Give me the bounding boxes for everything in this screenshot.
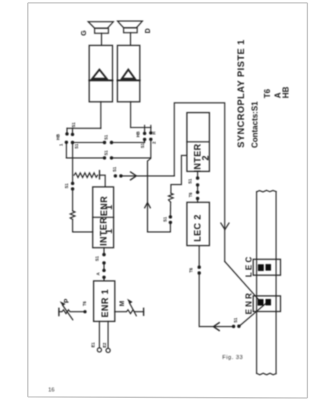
terminal E2 circle (106, 348, 110, 352)
wire amp D horizontal (131, 127, 151, 129)
contact HB dots (65, 132, 68, 135)
svg-text:HB: HB (55, 134, 60, 140)
svg-text:ENR 1: ENR 1 (100, 289, 110, 318)
svg-text:H: H (152, 131, 157, 134)
terminal E1 wire (98, 321, 100, 347)
wire LEC2 down to pickup line (199, 246, 233, 327)
terminal E2 wire (107, 321, 109, 348)
svg-text:1: 1 (104, 205, 114, 210)
wire below S1 contact (72, 189, 74, 211)
amp D base line (117, 79, 139, 81)
svg-text:2: 2 (200, 155, 210, 160)
svg-text:L E C: L E C (244, 257, 253, 278)
arrow right on mix line (130, 172, 136, 181)
svg-text:S1: S1 (112, 166, 117, 172)
block INTER2 (187, 113, 210, 172)
wire amp D down (130, 102, 132, 128)
svg-text:S1: S1 (233, 317, 238, 323)
svg-text:S1: S1 (74, 143, 79, 149)
input P pot (58, 308, 60, 315)
svg-text:S1: S1 (140, 142, 145, 148)
bottom S1 contact dots (232, 325, 235, 328)
LEC head poles (258, 264, 264, 271)
wire right contact down (148, 140, 151, 232)
svg-text:S1: S1 (94, 255, 99, 261)
wire arrow line out (121, 175, 174, 177)
svg-text:S1: S1 (104, 150, 109, 156)
wire bottom to contact S1 (148, 223, 171, 232)
amplifier block D (117, 45, 139, 101)
wire up right side (174, 103, 224, 262)
head gaps (258, 264, 271, 306)
wire amp G down (100, 102, 102, 129)
svg-text:S1: S1 (104, 134, 109, 140)
amp D triangle (122, 70, 135, 79)
speaker D horn (118, 21, 143, 28)
svg-text:T6: T6 (188, 192, 193, 198)
rail1 wire (73, 140, 145, 142)
wire speaker G to amp (101, 33, 103, 45)
svg-text:HB: HB (136, 131, 141, 137)
right cluster dots (143, 132, 146, 135)
svg-text:T6: T6 (263, 88, 272, 98)
wire left vertical to rail2 (65, 143, 67, 158)
wire amp G horizontal (67, 127, 101, 129)
resistor R-left-vert (70, 211, 75, 220)
arrow down to head (221, 223, 230, 230)
diagonal wire ENR head to S1 (239, 304, 265, 326)
INTER2 stem contact dots (196, 176, 199, 179)
svg-text:E N R: E N R (244, 293, 253, 315)
speaker D magnet (124, 28, 138, 33)
head ENR box (253, 296, 280, 312)
tape band (257, 192, 277, 374)
rail2 wire (66, 157, 150, 159)
wire speaker D to amp (130, 33, 132, 46)
right S1 contact dots (169, 221, 172, 224)
resistor end bar (99, 171, 101, 179)
svg-text:E2: E2 (102, 342, 107, 348)
block divider (93, 216, 114, 218)
svg-text:SYNCROPLAY PISTE 1: SYNCROPLAY PISTE 1 (236, 39, 246, 148)
contact A dots on arrow line (114, 174, 117, 177)
svg-text:G: G (81, 30, 88, 36)
svg-text:M: M (119, 301, 126, 306)
svg-text:S1: S1 (188, 178, 193, 184)
svg-text:16: 16 (48, 387, 54, 393)
contact S1 stub (72, 128, 74, 132)
wire S1 vertical left branch (72, 143, 74, 183)
head LEC box (253, 259, 280, 275)
contact HB2 stub left (144, 125, 146, 131)
svg-text:T6: T6 (189, 267, 194, 273)
svg-text:T6: T6 (82, 300, 87, 306)
svg-text:LEC 2: LEC 2 (193, 214, 203, 242)
rotated block labels (63, 28, 253, 317)
wire resistor to INTER1 (73, 219, 93, 232)
small contact labels (55, 122, 238, 348)
amplifier block G (89, 45, 112, 101)
resistor R-mix (74, 173, 98, 178)
terminal E1 circle (97, 348, 101, 352)
wire resistor to block stem (100, 175, 106, 187)
rail2 contact dots (103, 156, 106, 159)
arrows (130, 172, 229, 331)
contact T6 dots on playback wire (198, 266, 201, 269)
svg-text:1: 1 (104, 229, 114, 234)
svg-text:P: P (63, 298, 70, 303)
contact HB2 stub right (150, 125, 152, 130)
speaker G horn (88, 22, 113, 29)
stem INTER2 to LEC2 (197, 171, 199, 177)
arrow up on speaker feed (144, 203, 150, 209)
svg-text:HB: HB (282, 86, 291, 98)
wire resistor to contact (169, 202, 171, 216)
svg-text:A: A (96, 272, 101, 275)
resistor R-right-vert (169, 193, 174, 202)
INTER2 divider (187, 141, 210, 143)
svg-text:Fig. 33: Fig. 33 (222, 355, 243, 361)
svg-text:S1: S1 (71, 122, 76, 128)
diagonal wire to ENR head (225, 261, 259, 299)
svg-text:S1: S1 (163, 216, 168, 222)
svg-text:S1: S1 (64, 183, 69, 189)
block LEC2 (187, 202, 210, 245)
speaker G magnet (95, 28, 109, 33)
ENR head poles (258, 299, 264, 306)
block ENR 1 (94, 281, 115, 322)
P input contact dot (83, 310, 86, 313)
wire INTER2 left tap (171, 155, 187, 193)
stem below block (103, 248, 105, 254)
amp G triangle (92, 70, 106, 79)
input M pot (115, 310, 144, 314)
rail1 contact dots (103, 141, 106, 144)
contact stub rail1 right (144, 140, 146, 143)
S1 branch dots (71, 182, 74, 185)
contact HB stub left (66, 128, 68, 132)
arrow left on playback line (213, 322, 219, 331)
svg-text:E1: E1 (91, 342, 96, 348)
block INTER1/ENR1 (93, 187, 114, 248)
svg-text:Contacts:S1: Contacts:S1 (250, 101, 259, 148)
amp G base line (89, 79, 112, 81)
stem S1/A contact dots (102, 253, 105, 256)
svg-text:D: D (145, 28, 152, 33)
